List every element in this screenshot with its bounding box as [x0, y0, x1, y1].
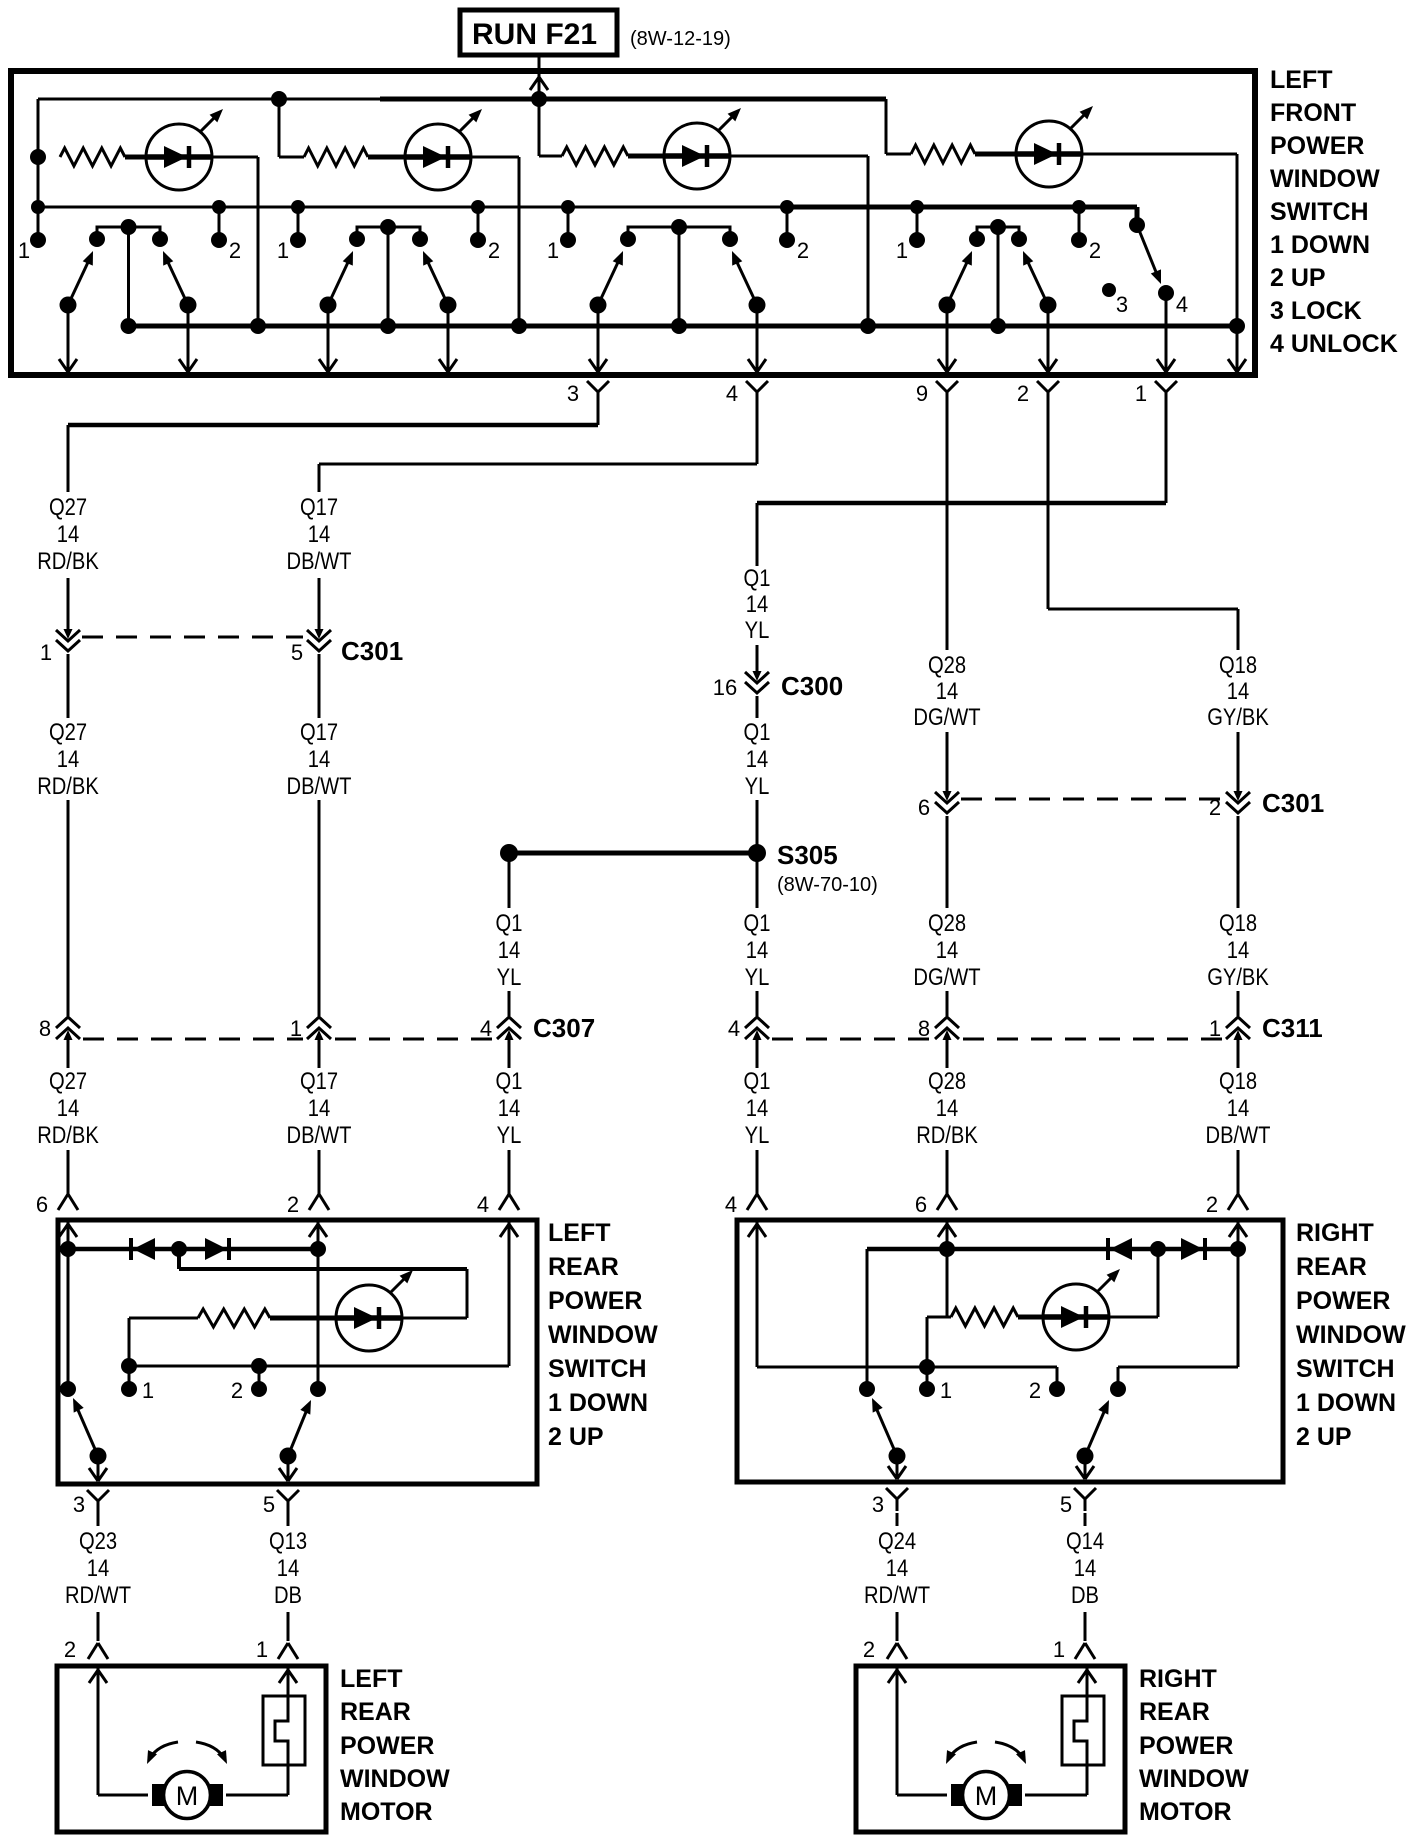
junction dot bar center module 2 — [380, 219, 396, 235]
svg-text:RD/BK: RD/BK — [916, 1121, 978, 1148]
svg-text:14: 14 — [1227, 1094, 1249, 1121]
pin label 1 module 1 — [18, 238, 30, 263]
connector label C307 — [533, 1013, 595, 1043]
svg-text:S305: S305 — [777, 840, 838, 870]
wire Q27 label to C307 — [67, 800, 70, 1016]
svg-text:YL: YL — [745, 772, 770, 799]
svg-text:Q27: Q27 — [49, 493, 87, 520]
junction dot wire A / RUN F21 feed — [531, 91, 547, 107]
wire S305 down — [756, 858, 759, 908]
connector pin 4 into rear switch — [477, 1192, 519, 1217]
connector pin 5 below right rear switch — [1060, 1488, 1096, 1517]
svg-text:8: 8 — [918, 1016, 930, 1041]
circuit breaker left motor — [263, 1668, 305, 1795]
svg-text:3: 3 — [1116, 292, 1128, 317]
diode bus left rear — [60, 1241, 326, 1257]
switch arm left module 1 — [60, 251, 94, 314]
wire D common bus — [129, 324, 1239, 329]
svg-text:4: 4 — [1176, 292, 1188, 317]
svg-text:Q14: Q14 — [1066, 1527, 1104, 1554]
junction dot wire B module 1 down contact — [31, 200, 45, 214]
wire resistor feed left rear — [129, 1318, 198, 1366]
switch arm left (down) right rear — [859, 1381, 906, 1465]
resistor right rear switch — [951, 1308, 1018, 1326]
svg-text:14: 14 — [886, 1554, 908, 1581]
svg-text:4: 4 — [728, 1016, 740, 1041]
circuit breaker right motor — [1062, 1668, 1104, 1795]
wire lamp 1 output — [212, 157, 258, 326]
wire label Q14 14 DB — [1066, 1527, 1104, 1608]
svg-text:DG/WT: DG/WT — [913, 703, 981, 730]
junction dot diode bus right rear — [1150, 1241, 1166, 1257]
wire bar center module 4 to wire D — [997, 227, 1000, 326]
svg-text:C301: C301 — [1262, 788, 1324, 818]
svg-text:14: 14 — [936, 936, 958, 963]
entry arrow pin 1 right motor — [1078, 1670, 1096, 1683]
svg-text:2 UP: 2 UP — [1270, 264, 1326, 292]
contact 2 (up) module 3 — [779, 207, 795, 248]
svg-text:Q18: Q18 — [1219, 1067, 1257, 1094]
svg-text:POWER: POWER — [1139, 1732, 1233, 1760]
wire Q17 label to C307 — [318, 800, 321, 1016]
pin label 1 left rear — [142, 1378, 154, 1403]
svg-text:3 LOCK: 3 LOCK — [1270, 297, 1362, 325]
contact 2 (up) module 1 — [211, 207, 227, 248]
diode D2 left rear — [205, 1238, 229, 1260]
svg-text:2: 2 — [488, 238, 500, 263]
wire Q23 to motor — [97, 1612, 100, 1641]
wire label Q1 14 YL (left branch) — [496, 909, 523, 990]
svg-text:14: 14 — [746, 590, 768, 617]
svg-text:RD/WT: RD/WT — [65, 1581, 131, 1608]
svg-text:16: 16 — [713, 675, 737, 700]
svg-text:14: 14 — [746, 745, 768, 772]
connector C311 pin 4 — [728, 1016, 769, 1042]
wire bar center module 3 to wire D — [678, 227, 681, 326]
junction dot lamp 2 output / wire D — [511, 318, 527, 334]
entry arrow pin 2 right rear — [1229, 1224, 1247, 1237]
splice label S305 — [777, 840, 838, 870]
wire pin 5 to Q13 label — [287, 1513, 290, 1526]
connector label C301 — [341, 636, 403, 666]
junction dot wire B module 2 down contact — [291, 200, 305, 214]
svg-text:Q27: Q27 — [49, 718, 87, 745]
svg-text:YL: YL — [497, 1121, 522, 1148]
wire lamp output left rear — [402, 1317, 467, 1320]
wire label Q27 14 RD/BK (lower) — [37, 1067, 99, 1148]
motor M left — [152, 1772, 223, 1819]
svg-text:Q1: Q1 — [744, 564, 771, 591]
svg-text:Q28: Q28 — [928, 909, 966, 936]
svg-text:Q1: Q1 — [744, 718, 771, 745]
svg-text:DB/WT: DB/WT — [287, 1121, 352, 1148]
svg-text:4: 4 — [726, 381, 738, 406]
wire C307/C311 to switch at x=68 — [67, 1040, 70, 1194]
wire arm right module 2 down — [439, 305, 457, 372]
contact 2 right rear — [1049, 1367, 1065, 1397]
wire S305 left branch down — [508, 853, 511, 908]
svg-text:6: 6 — [915, 1192, 927, 1217]
svg-text:SWITCH: SWITCH — [1270, 198, 1369, 226]
svg-text:Q1: Q1 — [744, 909, 771, 936]
wire pin 4 column left rear — [508, 1222, 511, 1366]
switch common bar module 3 — [620, 227, 738, 247]
junction dot lamp 1 output / wire D — [250, 318, 266, 334]
svg-text:SWITCH: SWITCH — [548, 1355, 647, 1383]
svg-text:LEFT: LEFT — [340, 1665, 403, 1693]
wire Q1 label to S305 — [756, 800, 759, 848]
splice reference (8W-70-10) — [777, 874, 878, 896]
wire lamp feed module 3 — [539, 99, 562, 156]
wire Q17 into C301 — [318, 578, 321, 630]
wire Q27 into C301 — [67, 578, 70, 630]
fuse box RUN F21 — [460, 10, 617, 55]
svg-text:POWER: POWER — [1296, 1287, 1390, 1315]
svg-text:POWER: POWER — [548, 1287, 642, 1315]
wire breaker to motor brush right — [1025, 1794, 1087, 1797]
wire C307/C311 to switch at x=319 — [318, 1040, 321, 1194]
wire into C311 pin 8 — [946, 991, 949, 1016]
wire resistor 3 to lamp — [628, 154, 664, 159]
contact bus left rear — [129, 1365, 509, 1368]
svg-text:REAR: REAR — [340, 1698, 411, 1726]
svg-text:DB: DB — [274, 1581, 302, 1608]
svg-text:5: 5 — [291, 640, 303, 665]
pin label 1 right rear — [940, 1378, 952, 1403]
wire resistor 1 to lamp — [125, 155, 146, 160]
svg-text:9: 9 — [916, 381, 928, 406]
wire pin 2 column left rear — [317, 1222, 320, 1389]
svg-text:FRONT: FRONT — [1270, 99, 1356, 127]
contact 1 right rear — [919, 1367, 935, 1397]
connector C301 pin 1 — [40, 628, 80, 665]
wire label Q1 14 YL (mid) — [744, 718, 771, 799]
entry arrow pin 6 right rear — [938, 1224, 956, 1237]
wire arm left to pin 3 right rear — [888, 1456, 906, 1479]
wire Q13 to motor — [287, 1612, 290, 1641]
wire diode junction to lamp right rear — [1157, 1249, 1160, 1317]
svg-text:1: 1 — [1209, 1016, 1221, 1041]
svg-text:14: 14 — [277, 1554, 299, 1581]
connector pin 2 into right motor — [863, 1637, 907, 1662]
junction dot wire B module 3 down contact — [561, 200, 575, 214]
label 4 unlock — [1176, 292, 1188, 317]
illumination lamp LED right rear — [1043, 1269, 1120, 1350]
svg-text:1 DOWN: 1 DOWN — [1270, 231, 1370, 259]
C307 dashed line — [83, 1038, 493, 1041]
lock contact 4 dot — [1158, 285, 1174, 301]
svg-text:1 DOWN: 1 DOWN — [1296, 1389, 1396, 1417]
svg-text:Q18: Q18 — [1219, 909, 1257, 936]
pin label 2 module 3 — [797, 238, 809, 263]
switch arm right module 1 — [163, 251, 197, 314]
wire from RUN F21 into switch — [530, 55, 548, 98]
junction dot wire A / lamp 2 feed — [271, 91, 287, 107]
left front power window switch box outline — [11, 71, 1255, 375]
C311 dashed line — [772, 1038, 1224, 1041]
svg-text:1: 1 — [277, 238, 289, 263]
svg-text:2: 2 — [797, 238, 809, 263]
svg-text:14: 14 — [1074, 1554, 1096, 1581]
wire diode bus to left contact right rear — [866, 1249, 869, 1389]
wire label Q28 14 RD/BK (into right sw) — [916, 1067, 978, 1148]
svg-text:2: 2 — [64, 1637, 76, 1662]
connector pin 6 into rear switch — [915, 1192, 957, 1217]
wire lock contact to pin 1 — [1157, 293, 1175, 372]
wire B contact bus — [38, 207, 1137, 222]
wire label Q18 14 GY/BK (upper) — [1207, 651, 1269, 730]
svg-text:SWITCH: SWITCH — [1296, 1355, 1395, 1383]
wire pin 4 column right rear — [756, 1222, 759, 1367]
wire resistor 4 to lamp — [975, 152, 1016, 157]
wire pin 5 to Q14 label — [1084, 1513, 1087, 1526]
wire lamp 2 output — [471, 157, 519, 326]
pin label 2 right rear — [1029, 1378, 1041, 1403]
svg-text:WINDOW: WINDOW — [1296, 1321, 1406, 1349]
splice S305 — [500, 844, 766, 862]
wire breaker to motor brush left — [226, 1794, 288, 1797]
junction dot bar center module 3 on wire D — [671, 318, 687, 334]
svg-text:RD/BK: RD/BK — [37, 1121, 99, 1148]
svg-text:14: 14 — [498, 936, 520, 963]
junction dot bar center module 4 on wire D — [990, 318, 1006, 334]
connector C300 pin 16 — [713, 670, 769, 700]
svg-text:6: 6 — [918, 795, 930, 820]
svg-text:Q17: Q17 — [300, 718, 338, 745]
junction dot wire B module 1 up contact — [212, 200, 226, 214]
svg-text:3: 3 — [567, 381, 579, 406]
pin label 1 module 2 — [277, 238, 289, 263]
left rear power window motor box outline — [57, 1666, 326, 1832]
svg-text:14: 14 — [746, 936, 768, 963]
svg-text:2: 2 — [1017, 381, 1029, 406]
contact bus right rear — [757, 1366, 1057, 1369]
svg-text:LEFT: LEFT — [548, 1219, 611, 1247]
svg-text:WINDOW: WINDOW — [1139, 1765, 1249, 1793]
switch common bar module 1 — [89, 227, 168, 247]
entry arrow pin 2 left motor — [89, 1670, 107, 1683]
svg-text:14: 14 — [936, 1094, 958, 1121]
svg-text:2: 2 — [231, 1378, 243, 1403]
wire label Q1 14 YL (into right sw) — [744, 1067, 771, 1148]
wire label Q28 14 DG/WT (upper) — [913, 651, 981, 730]
resistor R2 — [304, 148, 368, 166]
wire arm left module 3 down — [589, 305, 607, 372]
svg-text:REAR: REAR — [548, 1253, 619, 1281]
wire Q28 into C301 row2 — [946, 732, 949, 792]
left rear switch title text — [548, 1219, 658, 1451]
wire arm right to pin 5 left rear — [279, 1456, 297, 1481]
switch common bar module 2 — [349, 227, 428, 247]
resistor R4 — [911, 145, 975, 163]
svg-text:RD/WT: RD/WT — [864, 1581, 930, 1608]
svg-text:DB/WT: DB/WT — [1206, 1121, 1271, 1148]
svg-text:Q1: Q1 — [744, 1067, 771, 1094]
junction dot resistor 1 feed — [30, 149, 46, 165]
svg-text:2: 2 — [863, 1637, 875, 1662]
diode D1 right rear — [1108, 1238, 1132, 1260]
connector pin 1 into right motor — [1053, 1637, 1095, 1662]
connector label C311 — [1262, 1013, 1323, 1043]
junction dot wire B module 3 up contact — [780, 200, 794, 214]
switch common bar module 4 — [969, 227, 1027, 247]
wire C301 pin6 down — [946, 816, 949, 908]
wire pin 2 to motor brush left — [98, 1668, 148, 1795]
svg-text:1 DOWN: 1 DOWN — [548, 1389, 648, 1417]
svg-text:1: 1 — [142, 1378, 154, 1403]
wire pin 3 to Q23 label — [97, 1513, 100, 1526]
connector pin 6 into rear switch — [36, 1192, 78, 1217]
wire into C307 pin 1 — [318, 991, 321, 1016]
wire diode junction to lamp loop left rear — [179, 1249, 467, 1318]
svg-text:5: 5 — [263, 1492, 275, 1517]
svg-text:Q23: Q23 — [79, 1527, 117, 1554]
connector pin 4 into rear switch — [725, 1192, 767, 1217]
wire C300 to label — [756, 696, 759, 718]
svg-text:YL: YL — [497, 963, 522, 990]
pin label 2 module 4 — [1089, 238, 1101, 263]
svg-text:C301: C301 — [341, 636, 403, 666]
svg-text:4 UNLOCK: 4 UNLOCK — [1270, 330, 1398, 358]
lock position 3 dot — [1102, 283, 1116, 297]
wire arm left module 1 down — [59, 305, 77, 372]
svg-text:WINDOW: WINDOW — [340, 1765, 450, 1793]
svg-text:REAR: REAR — [1296, 1253, 1367, 1281]
svg-text:RIGHT: RIGHT — [1139, 1665, 1217, 1693]
svg-text:RIGHT: RIGHT — [1296, 1219, 1374, 1247]
svg-text:C307: C307 — [533, 1013, 595, 1043]
svg-text:POWER: POWER — [340, 1732, 434, 1760]
rotation arrows left motor — [147, 1742, 227, 1764]
pin label 1 module 4 — [896, 238, 908, 263]
svg-text:GY/BK: GY/BK — [1207, 963, 1269, 990]
wire pin 3 to Q24 label — [896, 1513, 899, 1526]
svg-text:RUN F21: RUN F21 — [472, 18, 597, 51]
left rear power window switch box outline — [58, 1220, 537, 1484]
resistor R3 — [562, 147, 628, 165]
wire label Q27 14 RD/BK (mid) — [37, 718, 99, 799]
svg-text:1: 1 — [40, 640, 52, 665]
junction dot bar center module 1 on wire D — [121, 318, 137, 334]
contact 1 (down) module 2 — [290, 207, 306, 248]
diode D2 right rear — [1181, 1238, 1205, 1260]
svg-text:YL: YL — [745, 1121, 770, 1148]
junction dot bar center module 3 — [671, 219, 687, 235]
svg-text:3: 3 — [872, 1492, 884, 1517]
wire lamp feed module 4 — [886, 99, 911, 154]
wire arm left to pin 3 left rear — [89, 1456, 107, 1481]
connector C311 pin 8 — [918, 1016, 959, 1042]
wire label Q17 14 DB/WT (mid) — [287, 718, 352, 799]
svg-text:POWER: POWER — [1270, 132, 1364, 160]
connector pin 1 of left front switch — [1135, 381, 1177, 406]
svg-text:(8W-70-10): (8W-70-10) — [777, 874, 878, 896]
connector pin 4 of left front switch — [726, 381, 768, 406]
connector C307 pin 8 — [39, 1016, 80, 1042]
pin label 2 left rear — [231, 1378, 243, 1403]
svg-text:14: 14 — [57, 1094, 79, 1121]
svg-text:1: 1 — [1053, 1637, 1065, 1662]
pin label 2 module 1 — [229, 238, 241, 263]
connector pin 3 below right rear switch — [872, 1488, 908, 1517]
entry arrow pin 4 right rear — [748, 1224, 766, 1237]
junction dot bar center module 2 on wire D — [380, 318, 396, 334]
svg-text:14: 14 — [308, 745, 330, 772]
wire lamp 4 output — [1082, 154, 1237, 326]
wire lamp feed module 2 — [279, 99, 304, 157]
svg-text:Q28: Q28 — [928, 651, 966, 678]
wire label Q1 14 YL (upper) — [744, 564, 771, 643]
connector label C301 right — [1262, 788, 1324, 818]
wire label Q1 14 YL (into left sw) — [496, 1067, 523, 1148]
wire Q24 to motor — [896, 1612, 899, 1641]
contact 1 (down) module 3 — [560, 207, 576, 248]
svg-text:Q17: Q17 — [300, 1067, 338, 1094]
svg-text:14: 14 — [308, 520, 330, 547]
illumination lamp LED 1 — [146, 109, 223, 190]
svg-text:Q1: Q1 — [496, 909, 523, 936]
left front switch title text — [1270, 66, 1398, 358]
junction dot wire B module 4 down contact — [910, 200, 924, 214]
diode bus right rear — [867, 1241, 1246, 1257]
wire C301 pin1 to label — [67, 654, 70, 718]
connector pin 3 below left rear switch — [73, 1490, 109, 1517]
wire resistor 2 to lamp — [368, 155, 405, 160]
svg-text:14: 14 — [936, 677, 958, 704]
entry arrow pin 4 left rear — [500, 1224, 518, 1237]
entry arrow pin 2 left rear — [309, 1224, 327, 1237]
wire into C311 pin 1 — [1237, 991, 1240, 1016]
svg-text:GY/BK: GY/BK — [1207, 703, 1269, 730]
connector C301 pin 5 — [291, 628, 331, 665]
svg-text:DG/WT: DG/WT — [913, 963, 981, 990]
wire label Q28 14 DG/WT (lower) — [913, 909, 981, 990]
wire into C311 pin 4 — [756, 991, 759, 1016]
contact 1 (down) module 4 — [909, 207, 925, 248]
svg-text:2: 2 — [287, 1192, 299, 1217]
motor M right — [951, 1772, 1022, 1819]
label 3 lock — [1116, 292, 1128, 317]
svg-text:1: 1 — [256, 1637, 268, 1662]
svg-text:REAR: REAR — [1139, 1698, 1210, 1726]
svg-text:1: 1 — [290, 1016, 302, 1041]
svg-text:1: 1 — [896, 238, 908, 263]
wire arm right to pin 5 right rear — [1076, 1456, 1094, 1479]
junction dot wire B module 4 up contact — [1072, 200, 1086, 214]
reference label (8W-12-19) — [630, 28, 731, 50]
wire label Q24 14 RD/WT — [864, 1527, 930, 1608]
svg-text:2: 2 — [229, 238, 241, 263]
junction dot lamp 4 output / wire D — [1229, 318, 1245, 334]
svg-text:3: 3 — [73, 1492, 85, 1517]
wire A feed bus — [38, 98, 886, 101]
contact 1 (down) module 1 — [30, 207, 46, 248]
illumination lamp LED 3 — [664, 108, 741, 189]
wire into C307 pin 8 — [67, 991, 70, 1016]
wire C307/C311 to switch at x=757 — [756, 1040, 759, 1194]
svg-text:YL: YL — [745, 616, 770, 643]
wire pin 9 to Q28 column — [946, 404, 949, 650]
switch arm right (up) right rear — [1077, 1381, 1127, 1465]
illumination lamp LED 4 — [1016, 106, 1093, 187]
junction dot contact bus 1 left rear — [121, 1358, 137, 1374]
wire into C307 pin 4 — [508, 991, 511, 1016]
svg-text:1: 1 — [1135, 381, 1147, 406]
wire Q14 to motor — [1084, 1612, 1087, 1641]
svg-text:MOTOR: MOTOR — [340, 1798, 433, 1826]
switch arm left module 3 — [590, 251, 624, 314]
wire bar center module 2 to wire D — [387, 227, 390, 326]
